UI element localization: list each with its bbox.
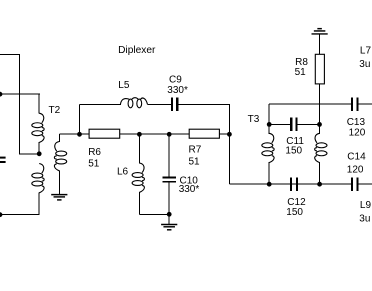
svg-text:T3: T3 [248,114,260,125]
svg-text:T2: T2 [49,105,61,116]
svg-text:3u: 3u [359,214,370,225]
svg-text:3u: 3u [359,59,370,70]
svg-text:C13: C13 [347,117,366,128]
svg-text:120: 120 [349,128,366,139]
svg-text:120: 120 [347,164,364,175]
svg-text:51: 51 [295,67,307,78]
svg-text:330*: 330* [167,85,188,96]
svg-text:150: 150 [286,207,303,218]
svg-text:R6: R6 [88,147,101,158]
svg-text:51: 51 [88,158,100,169]
svg-text:150: 150 [285,146,302,157]
svg-text:L9: L9 [360,200,372,211]
svg-text:R7: R7 [189,145,202,156]
svg-text:Diplexer: Diplexer [118,45,156,56]
svg-text:L6: L6 [117,167,129,178]
svg-text:C12: C12 [287,197,306,208]
svg-text:C14: C14 [347,152,366,163]
svg-text:51: 51 [189,157,201,168]
svg-text:L5: L5 [118,80,130,91]
svg-text:L7: L7 [360,45,372,56]
svg-text:C9: C9 [169,74,182,85]
svg-text:330*: 330* [179,184,200,195]
